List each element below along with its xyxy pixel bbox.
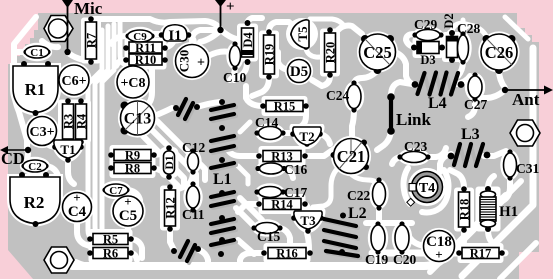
capacitor C16	[255, 163, 286, 174]
wire trace L4 right to C27	[457, 76, 470, 84]
potentiometer R2	[10, 172, 60, 227]
wire trace R18 top	[450, 170, 464, 188]
wire trace T4 left bracket	[404, 168, 411, 204]
trimmer C25	[360, 34, 396, 74]
wire trace D4 bottom fan	[234, 62, 247, 80]
svg-text:R10: R10	[135, 53, 157, 67]
wire trace below L1 diagonals 1	[236, 208, 254, 226]
svg-text:C26: C26	[485, 43, 513, 62]
wire trace right of C8	[146, 60, 152, 106]
capacitor C10	[230, 41, 241, 70]
wire trace C4 bottom down	[77, 222, 92, 247]
wire trace T1 left to C3	[46, 142, 55, 147]
diode D2	[442, 13, 458, 63]
wire trace vertical bundle 2	[95, 26, 108, 247]
svg-text:+: +	[197, 56, 205, 71]
svg-text:R1: R1	[25, 80, 46, 99]
wire trace C30 right to C10	[208, 52, 229, 57]
svg-text:T4: T4	[419, 181, 435, 196]
wire trace R9 right to D1 top	[152, 148, 169, 155]
wire trace Link top to L4	[391, 82, 412, 96]
wire trace vertical bundle 1	[88, 30, 102, 239]
capacitor C17	[254, 187, 285, 198]
svg-text:H1: H1	[499, 204, 518, 220]
wire trace C13 right to Z1	[154, 108, 172, 116]
wire trace D3 left to C29	[406, 34, 415, 47]
svg-text:Link: Link	[396, 110, 432, 129]
svg-text:R17: R17	[470, 247, 492, 261]
resistor R9	[108, 149, 157, 163]
wire trace R20 bottom to D5	[312, 76, 330, 86]
wire trace R20 top to C25	[338, 26, 362, 35]
svg-text:C21: C21	[337, 147, 365, 166]
wire trace below L1 diagonals 3	[238, 240, 254, 254]
wire trace C25 right to L4	[395, 52, 416, 85]
wire trace Z2 right to band	[197, 249, 208, 264]
svg-text:C2: C2	[28, 161, 42, 173]
component clearance halos	[125, 38, 167, 58]
svg-text:C11: C11	[182, 207, 205, 222]
coil L3	[448, 144, 491, 166]
electrolytic C5	[113, 194, 143, 226]
coil L2	[324, 213, 360, 259]
capacitor C23	[397, 152, 430, 163]
svg-text:T1: T1	[60, 142, 75, 157]
svg-text:C30: C30	[177, 50, 192, 72]
capacitor C9	[125, 30, 154, 43]
svg-text:+C8: +C8	[120, 76, 145, 91]
resistor R11	[123, 41, 168, 55]
wire trace I1 left to C9 area	[154, 31, 163, 37]
trimmer C21	[331, 139, 370, 174]
svg-text:T3: T3	[300, 213, 316, 228]
wire trace Link bottom left	[377, 131, 391, 150]
capacitor C20	[395, 221, 409, 254]
wire trace C29 right to D2	[441, 32, 450, 35]
svg-text:+: +	[73, 190, 80, 205]
svg-text:C1: C1	[30, 47, 43, 59]
svg-text:T2: T2	[299, 129, 314, 144]
wire trace R15 right to T2	[300, 106, 306, 127]
wire trace C1 left to edge	[15, 49, 25, 55]
wire trace C18 left to C20	[410, 238, 424, 246]
resistor R15	[260, 100, 309, 114]
svg-text:R2: R2	[24, 193, 45, 212]
svg-text:D5: D5	[290, 64, 308, 80]
wire trace C16 right down	[282, 168, 293, 178]
wire trace C21 bottom to C22	[352, 175, 378, 185]
svg-text:C6+: C6+	[61, 74, 86, 89]
svg-text:D2: D2	[442, 13, 456, 28]
svg-text:C15: C15	[257, 229, 280, 244]
wire trace left edge to CD	[14, 17, 36, 150]
coil I1	[159, 25, 192, 44]
resistor R17	[456, 247, 505, 261]
svg-text:C10: C10	[223, 70, 246, 85]
wire trace R11 right	[164, 40, 174, 48]
svg-text:R15: R15	[274, 100, 296, 114]
resistor R19	[263, 29, 277, 80]
wire trace T5 bottom to R20	[306, 49, 329, 57]
svg-text:+: +	[124, 194, 131, 209]
wire trace C19 bottom to band	[375, 252, 381, 264]
resistor R13	[256, 150, 308, 164]
coil Z2 unlabeled choke	[171, 241, 201, 263]
svg-text:D1: D1	[164, 155, 176, 169]
capacitor C12	[188, 148, 199, 174]
svg-text:C27: C27	[464, 97, 487, 112]
wire trace vertical bundle 4	[120, 22, 124, 64]
svg-text:L1: L1	[213, 171, 232, 188]
svg-text:C29: C29	[414, 17, 437, 32]
wire trace R13 right to C21	[305, 149, 334, 156]
wire trace C26 bottom to Ant	[499, 70, 505, 88]
svg-text:L2: L2	[348, 205, 367, 222]
resistor R8	[108, 162, 157, 176]
wire trace C25 bottom to C24	[354, 71, 377, 84]
svg-text:C13: C13	[124, 111, 152, 128]
wire trace C13 top up	[134, 90, 140, 99]
wire trace R19 top to T5	[269, 22, 294, 32]
wire trace R6 right	[131, 253, 137, 260]
wire trace R10 left down	[116, 60, 127, 66]
coil L1	[211, 99, 236, 257]
wire trace bottom band	[72, 196, 506, 266]
svg-text:C19: C19	[365, 252, 388, 267]
electrolytic C4	[63, 190, 92, 222]
wire trace diagonal fan 3	[157, 121, 205, 180]
wire trace H1 bottom	[488, 230, 500, 248]
wire trace plus node fan left	[200, 30, 221, 42]
diode D5	[288, 60, 311, 83]
wire trace I1 to C30	[186, 34, 194, 44]
coil Z1 unlabeled choke	[173, 99, 200, 121]
svg-text:R6: R6	[103, 247, 118, 261]
wire trace diagonal fan 1	[150, 128, 196, 186]
svg-text:D4: D4	[241, 32, 255, 48]
wire trace C19 C20 top pads	[366, 220, 412, 226]
wire trace T5 top to R20 top	[310, 19, 344, 26]
transistor T5	[290, 19, 310, 50]
transistor T2	[290, 127, 323, 147]
wire trace stub left of R13	[238, 166, 248, 184]
svg-text:R3: R3	[62, 114, 76, 129]
svg-text:Mic: Mic	[74, 0, 103, 18]
wire trace under Ant left	[474, 90, 505, 98]
capacitor C27	[468, 72, 482, 101]
wire trace R19 bottom left	[252, 78, 269, 96]
diode D4	[241, 20, 255, 65]
svg-text:C28: C28	[457, 21, 480, 36]
svg-text:C3+: C3+	[29, 125, 54, 140]
wire trace top run R7 to plus node	[91, 19, 221, 30]
Link jumper wire	[387, 93, 395, 135]
wire trace C7 right down	[129, 190, 140, 210]
capacitor C2	[21, 160, 48, 173]
resistor R16	[261, 247, 313, 261]
resistor R5	[87, 233, 134, 247]
wire trace under hexagon	[42, 41, 58, 47]
wire trace C9 into bundle	[112, 36, 127, 44]
wire trace mic pad to R7	[67, 52, 91, 60]
wire trace C28 bottom to L4	[458, 61, 463, 76]
wire trace R12 bottom to Z2	[170, 230, 174, 250]
CD input wire	[0, 146, 31, 154]
capacitor C24	[347, 80, 361, 112]
capacitor C19	[371, 221, 385, 254]
resistor R20	[324, 27, 338, 78]
capacitor C1	[23, 46, 50, 59]
svg-text:C25: C25	[363, 43, 391, 62]
wire trace CD to C2	[26, 150, 28, 164]
wire trace corner diagonal 3	[430, 181, 521, 272]
Mic input wire	[62, 0, 73, 55]
wire trace D2 top to C26	[452, 23, 487, 38]
svg-text:D3: D3	[420, 53, 435, 67]
wire trace C24 bottom to C21	[352, 108, 354, 136]
svg-text:T5: T5	[295, 26, 310, 42]
svg-text:+: +	[435, 247, 442, 262]
wire trace C5 bottom down	[122, 227, 128, 252]
trimmer C13	[121, 101, 155, 135]
wire trace vertical bundle 3	[102, 24, 114, 266]
wire trace right edge vertical band	[462, 48, 533, 276]
wire trace stub left of C14	[240, 122, 250, 132]
capacitor C7	[102, 184, 129, 197]
resistor R18	[458, 186, 472, 233]
mounting hole hexagon right	[510, 120, 540, 146]
wire trace C21 bottom left down	[313, 169, 337, 207]
wire trace R5 right	[131, 239, 142, 258]
svg-text:L4: L4	[428, 95, 447, 112]
wire trace below L1 diagonals 2	[240, 198, 262, 228]
capacitor C15	[251, 223, 282, 234]
electrolytic C30	[176, 45, 209, 78]
wire trace T3 bottom to R16 right	[307, 233, 309, 250]
svg-text:C22: C22	[347, 188, 370, 203]
svg-text:C23: C23	[404, 139, 427, 154]
wire trace R18 bottom to band	[461, 230, 464, 252]
mounting hole hexagon top-left	[44, 16, 73, 42]
wire trace R15 left up	[246, 86, 263, 106]
svg-text:C16: C16	[284, 162, 307, 177]
diode D1	[164, 145, 177, 180]
wire trace C15 to R16	[280, 228, 290, 246]
wire trace D5 left	[278, 52, 288, 70]
transistor T3	[291, 211, 324, 234]
svg-text:L3: L3	[461, 126, 480, 143]
wire trace Z1 right to L1 top	[197, 102, 220, 107]
resistor R12	[164, 184, 178, 232]
capacitor C22	[373, 177, 386, 210]
svg-text:C24: C24	[326, 88, 349, 103]
capacitor C29	[412, 30, 443, 41]
wire trace corner diagonal 2	[500, 243, 536, 279]
wire trace C23 left	[392, 157, 401, 164]
wire trace C27 bottom down	[468, 98, 475, 117]
wire trace R14 right to T3	[305, 204, 308, 210]
wire trace T1 bottom down	[68, 161, 74, 184]
wire trace R13 left to L1	[228, 150, 259, 156]
coil L4	[412, 73, 465, 95]
wire trace C23 right	[427, 148, 446, 157]
svg-text:C20: C20	[393, 252, 416, 267]
svg-text:C12: C12	[182, 140, 205, 155]
wire trace C28 top	[463, 26, 468, 33]
svg-text:R18: R18	[458, 199, 472, 221]
capacitor C31	[504, 149, 517, 180]
wire trace hexagon bottom to band	[76, 262, 92, 266]
transistor T1	[52, 140, 84, 163]
svg-text:+: +	[226, 0, 235, 15]
capacitor C28	[458, 31, 469, 64]
svg-text:R7: R7	[85, 33, 99, 48]
wire trace C19 C20 R17 horizontal	[372, 250, 505, 257]
wire trace C28 to top edge	[461, 20, 466, 30]
wire trace R16 left into band	[240, 253, 264, 264]
electrolytic C3	[28, 117, 57, 146]
svg-text:R5: R5	[103, 233, 118, 247]
svg-text:R16: R16	[276, 247, 298, 261]
svg-text:C31: C31	[516, 161, 539, 176]
transformer T4	[407, 172, 443, 207]
Ant output wire	[502, 86, 553, 95]
wire trace C2 right	[47, 166, 58, 176]
wire trace C31 bottom	[504, 178, 510, 200]
resistor R4	[75, 98, 89, 145]
svg-text:R9: R9	[125, 149, 140, 163]
svg-text:C17: C17	[284, 185, 307, 200]
wire trace diagonal fan 2	[143, 136, 184, 184]
svg-text:CD: CD	[1, 149, 25, 168]
wire trace R8 right to D1 bottom	[152, 168, 169, 177]
svg-text:R8: R8	[125, 162, 140, 176]
electrolytic C8	[117, 66, 149, 98]
wire trace C22 bottom to C19	[376, 207, 382, 224]
trimmer C26	[481, 34, 517, 74]
svg-text:R12: R12	[164, 197, 178, 219]
wire trace D1 bottom diagonal	[169, 177, 178, 186]
resistor R7	[85, 16, 99, 65]
electrolytic C18	[424, 231, 455, 263]
wire trace C12 to R12	[176, 172, 193, 190]
wire trace T4 right bracket	[422, 170, 449, 213]
electrolytic C6	[59, 65, 89, 95]
svg-text:C7: C7	[109, 185, 123, 197]
svg-text:Ant: Ant	[512, 90, 540, 109]
svg-text:R4: R4	[75, 113, 89, 129]
resistor R3	[62, 98, 76, 145]
wire trace H1 top	[488, 176, 494, 188]
wire trace D3 right to D2 bottom	[441, 47, 452, 60]
svg-text:R19: R19	[263, 44, 277, 66]
wire trace C10 bottom down	[230, 66, 235, 80]
svg-text:C5: C5	[119, 208, 137, 224]
wire trace top right corner diagonal	[505, 17, 528, 39]
svg-text:R20: R20	[324, 42, 338, 64]
svg-text:C4: C4	[68, 204, 87, 220]
mounting hole hexagon bottom-left	[44, 247, 74, 273]
capacitor C11	[187, 181, 200, 212]
diode D3	[411, 42, 445, 68]
resistor R6	[87, 247, 134, 261]
svg-text:I1: I1	[168, 28, 181, 44]
svg-text:C14: C14	[255, 115, 278, 130]
wire trace plus node fan right to D4	[221, 18, 262, 40]
resistor R14	[256, 198, 308, 212]
coil H1	[480, 186, 496, 232]
wire trace C14 right to T2 left	[281, 130, 290, 136]
wire trace T2 right down	[320, 134, 330, 144]
wire trace L3 left down	[440, 154, 451, 172]
wire trace top right of C30	[192, 30, 216, 44]
wire trace L3 right to C31	[484, 151, 506, 156]
resistor R10	[123, 53, 168, 67]
potentiometer R1	[13, 61, 58, 116]
plus supply wire	[215, 0, 226, 33]
wire trace R14 left to L1	[238, 204, 259, 212]
capacitor C14	[254, 127, 285, 140]
